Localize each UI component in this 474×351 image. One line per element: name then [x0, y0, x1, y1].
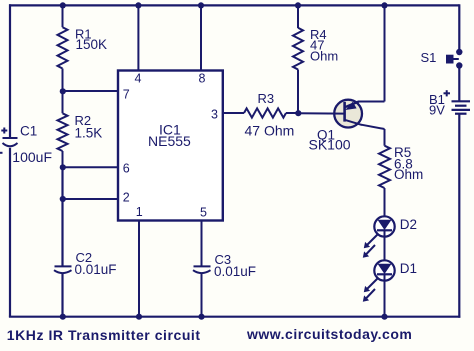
svg-text:SK100: SK100 [309, 137, 351, 153]
junction top rail / R4 [295, 2, 301, 8]
wire pin 6 [63, 166, 119, 168]
wire C3 to ground [201, 274, 203, 317]
svg-text:www.circuitstoday.com: www.circuitstoday.com [246, 326, 412, 342]
resistor R4 47 Ohm [293, 5, 303, 113]
junction ground / D1 [381, 314, 387, 320]
LED D2 [363, 216, 395, 257]
wire pin 1 to ground [138, 221, 140, 317]
wire Q1 emitter to top rail [359, 101, 385, 103]
junction top rail / pin 8 [198, 2, 204, 8]
resistor R3 47 Ohm [244, 108, 286, 117]
junction top rail / R1 [60, 2, 66, 8]
svg-text:1.5K: 1.5K [75, 126, 103, 141]
svg-text:150K: 150K [76, 37, 108, 52]
wire pin6 node to pin2 node [61, 167, 63, 199]
wire D1 to ground [384, 274, 386, 317]
junction ground / C3 [198, 314, 204, 320]
wire R3 to junction [286, 112, 298, 114]
wire S1 to battery [458, 66, 460, 102]
svg-text:Ohm: Ohm [310, 49, 338, 64]
svg-text:3: 3 [211, 107, 218, 121]
junction ground / C2 [60, 314, 66, 320]
svg-text:47 Ohm: 47 Ohm [245, 123, 295, 139]
junction pin 2 / C2 [60, 196, 66, 202]
wire battery to ground rail [458, 114, 460, 318]
svg-text:2: 2 [123, 190, 130, 204]
battery B1 9V [444, 90, 471, 114]
svg-text:4: 4 [135, 72, 142, 86]
wire pin2 node to C2 [61, 199, 63, 266]
wire pin 8 [200, 5, 202, 70]
junction R3 / R4 / Q1 base [295, 110, 301, 116]
svg-text:0.01uF: 0.01uF [214, 264, 256, 279]
junction R1 / R2 / pin 7 [60, 88, 66, 94]
svg-text:1KHz IR Transmitter circuit: 1KHz IR Transmitter circuit [7, 327, 201, 343]
wire pin 4 [137, 5, 139, 70]
svg-text:8: 8 [199, 72, 206, 86]
svg-text:R3: R3 [258, 91, 275, 106]
wire pin 7 [63, 90, 119, 92]
svg-text:C1: C1 [20, 124, 37, 139]
svg-text:Ohm: Ohm [394, 167, 423, 182]
wire pin 5 to C3 [201, 221, 203, 267]
LED D1 [363, 260, 395, 301]
junction R2 / pin 6 [60, 164, 66, 170]
wire ground rail [9, 316, 460, 318]
svg-text:5: 5 [200, 206, 207, 220]
junction ground / pin 1 [136, 314, 142, 320]
svg-text:100uF: 100uF [12, 149, 52, 165]
junction top rail / pin 4 [135, 2, 141, 8]
svg-text:D2: D2 [400, 217, 417, 232]
wire D2 to D1 [384, 230, 386, 263]
capacitor C1 100uF [0, 128, 18, 153]
svg-text:D1: D1 [400, 261, 417, 276]
resistor R1 150K [58, 5, 68, 91]
wire pin 3 to R3 [223, 112, 244, 114]
resistor R2 1.5K [58, 91, 68, 167]
svg-text:S1: S1 [421, 50, 437, 65]
svg-text:9V: 9V [429, 102, 445, 117]
wire R5 to D2 [384, 188, 386, 220]
wire right side top rail to S1 [458, 4, 460, 52]
wire left side upper (top rail to C1) [9, 4, 11, 138]
capacitor C2 0.01uF [54, 266, 72, 273]
wire C2 to ground [61, 274, 63, 317]
IC IC1 NE555 [118, 71, 223, 221]
resistor R5 6.8 Ohm [379, 146, 390, 188]
switch S1 push button [446, 49, 462, 69]
svg-text:6: 6 [123, 161, 130, 175]
wire pin 2 [63, 198, 119, 200]
svg-text:7: 7 [123, 88, 130, 102]
wire top rail [9, 4, 460, 6]
junction top rail / Q1 emitter column [381, 2, 387, 8]
svg-text:1: 1 [136, 205, 143, 219]
svg-text:NE555: NE555 [148, 133, 191, 149]
svg-text:0.01uF: 0.01uF [75, 262, 117, 277]
transistor Q1 SK100 [298, 100, 385, 129]
capacitor C3 0.01uF [193, 266, 211, 273]
wire Q1 collector to R5 [384, 129, 386, 146]
wire left side lower (C1 to ground rail) [9, 148, 11, 317]
